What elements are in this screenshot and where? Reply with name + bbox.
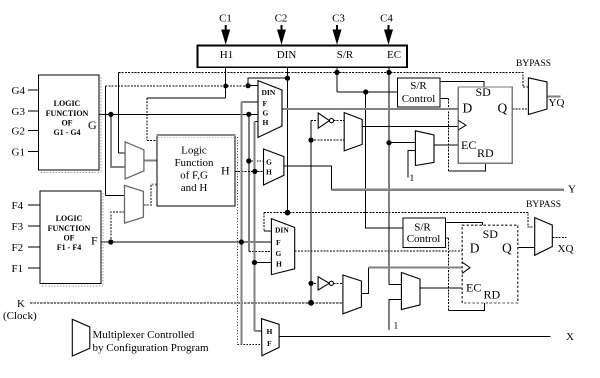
svg-text:H: H bbox=[266, 168, 272, 177]
svg-text:G1 - G4: G1 - G4 bbox=[53, 128, 80, 137]
svg-text:BYPASS: BYPASS bbox=[516, 59, 551, 69]
svg-text:S/R: S/R bbox=[410, 80, 427, 92]
svg-text:EC: EC bbox=[466, 281, 481, 295]
svg-text:G: G bbox=[266, 158, 272, 167]
svg-text:G: G bbox=[276, 249, 282, 258]
svg-text:Control: Control bbox=[402, 93, 436, 105]
svg-text:YQ: YQ bbox=[549, 97, 565, 109]
svg-text:F4: F4 bbox=[12, 200, 24, 212]
svg-text:H: H bbox=[276, 260, 282, 269]
svg-text:F3: F3 bbox=[12, 221, 24, 233]
svg-text:S/R: S/R bbox=[414, 222, 431, 234]
svg-text:1: 1 bbox=[410, 174, 415, 184]
svg-text:F: F bbox=[91, 234, 98, 248]
svg-text:DIN: DIN bbox=[262, 88, 276, 97]
svg-text:D: D bbox=[463, 101, 473, 116]
svg-text:EC: EC bbox=[387, 49, 401, 61]
svg-text:OF: OF bbox=[61, 119, 72, 128]
svg-text:H1: H1 bbox=[220, 49, 233, 61]
svg-text:F1: F1 bbox=[12, 263, 24, 275]
svg-text:C3: C3 bbox=[332, 13, 345, 25]
svg-text:BYPASS: BYPASS bbox=[526, 200, 561, 210]
svg-text:XQ: XQ bbox=[558, 243, 574, 255]
svg-text:and H: and H bbox=[181, 182, 208, 194]
svg-text:FUNCTION: FUNCTION bbox=[46, 109, 89, 118]
svg-text:G2: G2 bbox=[12, 126, 25, 138]
svg-text:H: H bbox=[263, 118, 269, 127]
svg-text:Control: Control bbox=[407, 233, 441, 245]
svg-text:DIN: DIN bbox=[275, 226, 289, 235]
svg-text:Multiplexer Controlled: Multiplexer Controlled bbox=[93, 329, 195, 341]
svg-text:FUNCTION: FUNCTION bbox=[48, 224, 91, 233]
svg-text:F: F bbox=[267, 339, 272, 348]
svg-text:EC: EC bbox=[461, 138, 476, 152]
svg-text:of F,G: of F,G bbox=[180, 170, 208, 182]
svg-text:Function: Function bbox=[174, 157, 214, 169]
svg-text:RD: RD bbox=[477, 146, 494, 160]
svg-text:C2: C2 bbox=[275, 13, 288, 25]
svg-text:G3: G3 bbox=[12, 106, 26, 118]
svg-text:F2: F2 bbox=[12, 242, 24, 254]
svg-text:X: X bbox=[566, 331, 574, 343]
svg-text:G: G bbox=[88, 118, 97, 132]
svg-text:Y: Y bbox=[568, 183, 576, 195]
svg-text:G1: G1 bbox=[12, 147, 25, 159]
svg-text:OF: OF bbox=[63, 234, 74, 243]
svg-text:H: H bbox=[221, 164, 230, 178]
svg-text:F: F bbox=[263, 99, 268, 108]
svg-text:C1: C1 bbox=[219, 13, 232, 25]
svg-text:(Clock): (Clock) bbox=[3, 310, 37, 322]
svg-text:by Configuration Program: by Configuration Program bbox=[93, 342, 210, 354]
svg-text:Q: Q bbox=[502, 240, 512, 255]
svg-text:Logic: Logic bbox=[181, 145, 207, 157]
svg-text:RD: RD bbox=[484, 288, 501, 302]
svg-text:G: G bbox=[263, 109, 269, 118]
svg-text:S/R: S/R bbox=[337, 49, 354, 61]
svg-text:1: 1 bbox=[394, 322, 399, 332]
svg-text:C4: C4 bbox=[380, 13, 393, 25]
svg-text:K: K bbox=[17, 298, 25, 310]
svg-text:H: H bbox=[267, 327, 273, 336]
svg-text:F1 - F4: F1 - F4 bbox=[57, 243, 81, 252]
svg-text:DIN: DIN bbox=[277, 49, 297, 61]
svg-text:G4: G4 bbox=[12, 85, 26, 97]
svg-text:SD: SD bbox=[483, 227, 499, 241]
svg-text:D: D bbox=[470, 240, 480, 255]
svg-text:LOGIC: LOGIC bbox=[56, 214, 83, 223]
svg-text:LOGIC: LOGIC bbox=[54, 99, 81, 108]
svg-text:SD: SD bbox=[476, 85, 492, 99]
svg-text:F: F bbox=[276, 238, 281, 247]
svg-text:Q: Q bbox=[498, 101, 508, 116]
